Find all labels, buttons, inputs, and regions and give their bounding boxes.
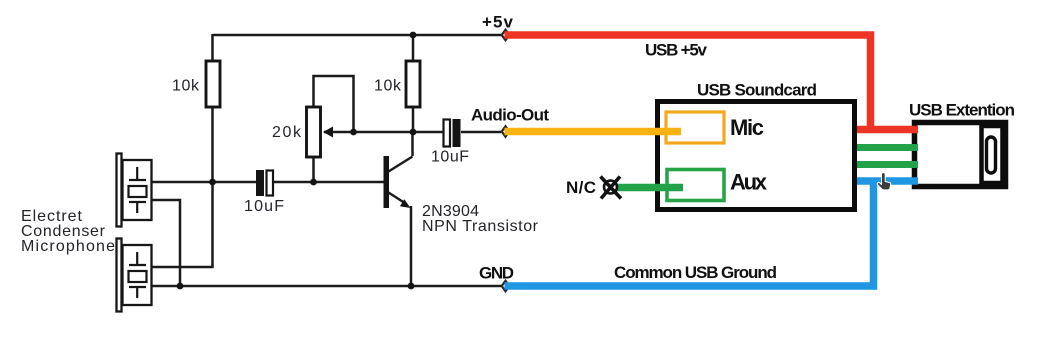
svg-text:Mic: Mic bbox=[730, 115, 764, 140]
svg-text:+5v: +5v bbox=[482, 13, 514, 32]
svg-text:GND: GND bbox=[479, 264, 514, 283]
svg-text:USB Extention: USB Extention bbox=[909, 101, 1015, 120]
svg-text:N/C: N/C bbox=[566, 178, 596, 197]
svg-text:10uF: 10uF bbox=[431, 149, 469, 166]
svg-text:Microphone: Microphone bbox=[21, 238, 115, 255]
svg-text:USB +5v: USB +5v bbox=[645, 41, 708, 60]
svg-text:NPN Transistor: NPN Transistor bbox=[422, 218, 539, 235]
svg-text:Audio-Out: Audio-Out bbox=[471, 106, 549, 125]
svg-text:Common USB Ground: Common USB Ground bbox=[614, 263, 777, 282]
svg-text:10k: 10k bbox=[374, 78, 402, 95]
svg-text:20k: 20k bbox=[272, 124, 302, 141]
svg-text:USB Soundcard: USB Soundcard bbox=[697, 81, 817, 100]
svg-text:10uF: 10uF bbox=[244, 198, 284, 215]
svg-text:Aux: Aux bbox=[730, 170, 768, 195]
svg-text:10k: 10k bbox=[172, 78, 200, 95]
